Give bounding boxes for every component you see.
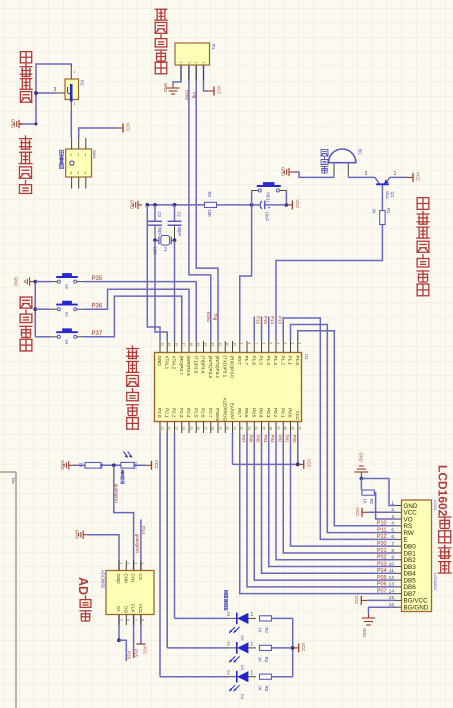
- svg-text:12: 12: [218, 343, 222, 347]
- svg-text:P07: P07: [241, 435, 246, 444]
- svg-text:Trig: Trig: [213, 313, 218, 321]
- svg-text:15: 15: [389, 595, 395, 601]
- svg-text:P1: P1: [211, 44, 216, 50]
- svg-text:17: 17: [182, 343, 186, 347]
- svg-text:3: 3: [187, 62, 191, 64]
- svg-text:GND: GND: [163, 83, 168, 92]
- svg-text:P0.6: P0.6: [244, 408, 249, 418]
- svg-text:2: 2: [227, 642, 230, 648]
- svg-text:P1.2: P1.2: [280, 356, 285, 366]
- svg-text:25: 25: [189, 427, 193, 431]
- svg-text:3: 3: [54, 87, 57, 93]
- svg-text:10uF: 10uF: [264, 212, 269, 222]
- svg-text:8: 8: [391, 548, 394, 554]
- svg-text:2K: 2K: [372, 209, 377, 214]
- svg-text:4: 4: [119, 563, 123, 565]
- svg-text:P05: P05: [256, 435, 261, 444]
- svg-text:CH1: CH1: [131, 574, 136, 584]
- svg-text:4: 4: [70, 171, 72, 175]
- svg-text:B1: B1: [358, 149, 363, 155]
- svg-text:1: 1: [251, 671, 254, 677]
- svg-text:GND: GND: [11, 119, 16, 128]
- svg-text:1K: 1K: [363, 499, 368, 504]
- svg-text:VCC: VCC: [301, 642, 306, 651]
- svg-text:Title: Title: [11, 477, 15, 484]
- svg-text:P04: P04: [263, 435, 268, 444]
- svg-text:ADC0832: ADC0832: [101, 570, 106, 589]
- svg-text:9: 9: [240, 343, 244, 345]
- svg-text:8: 8: [141, 619, 145, 621]
- svg-text:GND: GND: [362, 628, 367, 637]
- svg-text:10: 10: [389, 561, 395, 567]
- svg-text:VCC: VCC: [295, 411, 300, 421]
- svg-text:(INT1)P3.3: (INT1)P3.3: [208, 356, 213, 379]
- svg-text:S2: S2: [65, 284, 70, 290]
- svg-text:P10: P10: [377, 521, 387, 527]
- svg-text:16: 16: [389, 602, 395, 608]
- svg-text:P2.4: P2.4: [186, 408, 191, 418]
- svg-text:P2.1: P2.1: [164, 408, 169, 418]
- svg-text:D4: D4: [240, 694, 245, 700]
- svg-text:DR1: DR1: [133, 462, 138, 471]
- svg-text:2: 2: [194, 62, 198, 64]
- svg-text:31: 31: [232, 427, 236, 431]
- svg-text:D3: D3: [240, 665, 245, 671]
- svg-text:26: 26: [196, 427, 200, 431]
- svg-text:1: 1: [251, 612, 254, 618]
- svg-text:C3: C3: [157, 212, 162, 218]
- svg-text:P00: P00: [377, 541, 387, 547]
- svg-text:(WR)P3.6: (WR)P3.6: [186, 356, 191, 377]
- svg-text:C2: C2: [176, 212, 181, 218]
- svg-text:1K: 1K: [258, 627, 263, 632]
- svg-text:34: 34: [254, 427, 258, 431]
- svg-text:35: 35: [261, 427, 265, 431]
- svg-text:P06: P06: [377, 582, 387, 588]
- svg-text:32: 32: [240, 427, 244, 431]
- svg-text:(TXD)P3.1: (TXD)P3.1: [222, 356, 227, 378]
- svg-text:R2: R2: [369, 499, 374, 505]
- svg-text:1: 1: [394, 171, 397, 177]
- svg-text:EA/VPP: EA/VPP: [230, 403, 235, 420]
- svg-text:(T1)P3.5: (T1)P3.5: [193, 356, 198, 374]
- svg-text:VCC: VCC: [416, 172, 421, 181]
- svg-text:P36: P36: [92, 304, 103, 310]
- svg-text:P03: P03: [270, 435, 275, 444]
- svg-text:SW1: SW1: [92, 150, 97, 159]
- svg-text:Y1: Y1: [163, 247, 168, 253]
- svg-text:24: 24: [182, 427, 186, 431]
- svg-text:2: 2: [133, 563, 137, 565]
- svg-text:13: 13: [389, 582, 395, 588]
- svg-text:5: 5: [391, 527, 394, 533]
- svg-text:37: 37: [276, 427, 280, 431]
- svg-text:2: 2: [227, 612, 230, 618]
- svg-text:4: 4: [77, 171, 79, 175]
- svg-text:28: 28: [211, 427, 215, 431]
- svg-text:P02: P02: [277, 435, 282, 444]
- svg-text:1K: 1K: [258, 657, 263, 662]
- svg-text:GND: GND: [75, 530, 80, 539]
- svg-text:ALE/PROG: ALE/PROG: [222, 398, 227, 422]
- svg-text:Echo: Echo: [184, 90, 189, 100]
- svg-text:9: 9: [391, 555, 394, 561]
- svg-text:(RD)P3.7: (RD)P3.7: [179, 356, 184, 376]
- svg-text:P2.6: P2.6: [201, 408, 206, 418]
- svg-text:GND: GND: [116, 574, 121, 585]
- svg-text:15: 15: [196, 343, 200, 347]
- svg-text:7: 7: [254, 343, 258, 345]
- svg-text:P05: P05: [377, 575, 387, 581]
- svg-text:VCC: VCC: [154, 460, 159, 469]
- svg-text:36: 36: [269, 427, 273, 431]
- svg-text:39: 39: [290, 427, 294, 431]
- svg-text:1: 1: [84, 153, 86, 157]
- svg-text:3: 3: [365, 171, 368, 177]
- svg-text:GND: GND: [157, 356, 162, 367]
- svg-text:P11: P11: [377, 527, 386, 533]
- svg-text:5: 5: [119, 619, 123, 621]
- svg-text:guangmin: guangmin: [114, 484, 119, 503]
- svg-text:5: 5: [269, 343, 273, 345]
- svg-text:GND: GND: [281, 167, 286, 176]
- svg-text:GND: GND: [60, 460, 65, 469]
- svg-text:P1.4: P1.4: [266, 356, 271, 366]
- svg-text:P1.5: P1.5: [259, 356, 264, 366]
- svg-text:P16: P16: [126, 651, 131, 660]
- svg-text:LCD1: LCD1: [433, 500, 438, 511]
- svg-text:P01: P01: [377, 548, 387, 554]
- svg-text:P2.7: P2.7: [208, 408, 213, 418]
- svg-text:P07: P07: [377, 588, 387, 594]
- svg-text:3: 3: [283, 343, 287, 345]
- svg-text:C11: C11: [266, 196, 271, 204]
- svg-text:4: 4: [179, 62, 183, 64]
- svg-text:DO: DO: [123, 606, 128, 613]
- svg-text:23: 23: [174, 427, 178, 431]
- svg-text:40: 40: [298, 427, 302, 431]
- svg-text:4: 4: [391, 521, 394, 527]
- svg-text:R3: R3: [264, 627, 269, 633]
- svg-text:30: 30: [225, 427, 229, 431]
- svg-text:R3: R3: [207, 192, 212, 198]
- svg-text:AD: AD: [76, 577, 90, 595]
- svg-text:P04: P04: [377, 568, 387, 574]
- svg-text:S3: S3: [65, 312, 70, 318]
- svg-text:1: 1: [251, 642, 254, 648]
- svg-text:P0.5: P0.5: [251, 408, 256, 418]
- svg-text:7: 7: [133, 619, 137, 621]
- svg-text:P0.4: P0.4: [259, 408, 264, 418]
- svg-text:P0.0: P0.0: [288, 408, 293, 418]
- svg-text:1: 1: [141, 563, 145, 565]
- svg-text:P1.1: P1.1: [288, 356, 293, 366]
- svg-text:21: 21: [160, 427, 164, 431]
- svg-text:P1.0: P1.0: [295, 356, 300, 366]
- svg-text:1: 1: [77, 153, 79, 157]
- svg-text:(RXD)P3.0: (RXD)P3.0: [230, 356, 235, 379]
- svg-text:P0.3: P0.3: [266, 408, 271, 418]
- svg-text:VCC: VCC: [126, 123, 131, 132]
- svg-text:P2.5: P2.5: [193, 408, 198, 418]
- svg-text:9012: 9012: [385, 191, 389, 199]
- svg-text:6: 6: [126, 619, 130, 621]
- svg-text:P06: P06: [248, 435, 253, 444]
- svg-text:38: 38: [283, 427, 287, 431]
- svg-text:P2.2: P2.2: [172, 408, 177, 418]
- svg-text:LCD1602: LCD1602: [433, 573, 438, 591]
- svg-text:1: 1: [391, 500, 394, 506]
- svg-text:P00: P00: [292, 435, 297, 444]
- svg-text:4: 4: [84, 171, 86, 175]
- svg-text:XTAL1: XTAL1: [164, 356, 169, 370]
- svg-text:P37: P37: [92, 331, 103, 337]
- svg-text:P1.3: P1.3: [273, 356, 278, 366]
- svg-text:U1: U1: [304, 354, 309, 360]
- svg-text:2: 2: [290, 343, 294, 345]
- svg-text:1K: 1K: [79, 463, 84, 468]
- svg-text:1: 1: [70, 153, 72, 157]
- svg-text:Echo: Echo: [206, 312, 211, 322]
- svg-text:30pF: 30pF: [177, 227, 182, 237]
- svg-text:3: 3: [391, 514, 394, 520]
- svg-text:12: 12: [389, 575, 395, 581]
- svg-text:VCC: VCC: [217, 86, 222, 95]
- svg-text:6: 6: [391, 534, 394, 540]
- svg-text:GND: GND: [130, 200, 135, 209]
- svg-text:P13: P13: [277, 316, 282, 325]
- svg-text:VCC: VCC: [355, 507, 360, 516]
- svg-text:VCC: VCC: [354, 595, 359, 604]
- svg-text:GND: GND: [358, 453, 363, 462]
- svg-text:XTAL2: XTAL2: [172, 356, 177, 370]
- svg-text:P14: P14: [270, 316, 275, 325]
- svg-text:R6: R6: [99, 464, 104, 470]
- svg-text:D2: D2: [240, 635, 245, 641]
- svg-text:P01: P01: [285, 435, 290, 444]
- svg-text:PSEN: PSEN: [215, 408, 220, 421]
- svg-text:GND: GND: [14, 277, 19, 286]
- svg-text:22: 22: [167, 427, 171, 431]
- svg-text:14: 14: [203, 343, 207, 347]
- svg-text:R5: R5: [264, 686, 269, 692]
- svg-text:VCC: VCC: [142, 646, 147, 655]
- svg-text:(INT0)P3.2: (INT0)P3.2: [215, 356, 220, 379]
- svg-text:guangmin: guangmin: [135, 534, 140, 553]
- svg-text:20: 20: [160, 343, 164, 347]
- svg-text:BG/GND: BG/GND: [404, 605, 429, 612]
- svg-text:27: 27: [203, 427, 207, 431]
- svg-text:19: 19: [167, 343, 171, 347]
- svg-text:2: 2: [391, 507, 394, 513]
- svg-text:1: 1: [298, 343, 302, 345]
- svg-text:P14: P14: [141, 526, 146, 535]
- svg-text:2: 2: [74, 70, 76, 74]
- svg-text:R4: R4: [264, 657, 269, 663]
- svg-text:13: 13: [211, 343, 215, 347]
- svg-text:P1.6: P1.6: [251, 356, 256, 366]
- svg-text:16: 16: [189, 343, 193, 347]
- svg-text:12M: 12M: [153, 247, 158, 256]
- svg-text:1: 1: [202, 62, 206, 64]
- svg-text:VCC: VCC: [138, 604, 143, 614]
- svg-text:P2.3: P2.3: [179, 408, 184, 418]
- svg-text:R1: R1: [386, 208, 391, 214]
- svg-text:8: 8: [247, 343, 251, 345]
- svg-text:P0.1: P0.1: [280, 408, 285, 418]
- svg-text:14: 14: [389, 588, 395, 594]
- svg-text:P02: P02: [377, 555, 387, 561]
- svg-text:Trig: Trig: [192, 91, 197, 99]
- svg-text:P03: P03: [377, 561, 387, 567]
- svg-text:P1.7: P1.7: [244, 356, 249, 366]
- svg-text:P16: P16: [256, 316, 261, 325]
- svg-text:S4: S4: [65, 339, 70, 345]
- svg-text:P12: P12: [377, 534, 387, 540]
- svg-text:33: 33: [247, 427, 251, 431]
- svg-text:Q1: Q1: [390, 192, 395, 199]
- svg-text:VCC: VCC: [306, 459, 311, 468]
- svg-text:P35: P35: [92, 276, 103, 282]
- svg-text:P2.0: P2.0: [157, 408, 162, 418]
- svg-text:10: 10: [232, 343, 236, 347]
- svg-text:2: 2: [227, 671, 230, 677]
- svg-text:30pF: 30pF: [157, 227, 162, 237]
- svg-text:(T0)P3.4: (T0)P3.4: [201, 356, 206, 374]
- svg-text:P2: P2: [80, 80, 85, 86]
- svg-text:P15: P15: [134, 649, 139, 658]
- svg-text:1K: 1K: [258, 686, 263, 691]
- svg-text:10K: 10K: [207, 210, 212, 218]
- svg-text:11: 11: [389, 568, 394, 574]
- svg-text:CLK: CLK: [131, 604, 136, 614]
- svg-text:18: 18: [174, 343, 178, 347]
- svg-text:P0.7: P0.7: [237, 408, 242, 418]
- svg-text:1: 1: [74, 102, 76, 106]
- svg-text:11: 11: [225, 343, 229, 347]
- svg-text:RST: RST: [237, 356, 242, 365]
- svg-text:P0.2: P0.2: [273, 408, 278, 418]
- svg-text:4: 4: [276, 343, 280, 345]
- svg-text:CS: CS: [138, 574, 143, 580]
- svg-text:P15: P15: [263, 316, 268, 325]
- svg-text:CH0: CH0: [123, 574, 128, 584]
- svg-text:29: 29: [218, 427, 222, 431]
- svg-text:VCC: VCC: [295, 199, 300, 208]
- svg-text:3: 3: [126, 563, 130, 565]
- svg-text:7: 7: [391, 541, 394, 547]
- svg-text:DI: DI: [116, 606, 121, 611]
- svg-text:6: 6: [261, 343, 265, 345]
